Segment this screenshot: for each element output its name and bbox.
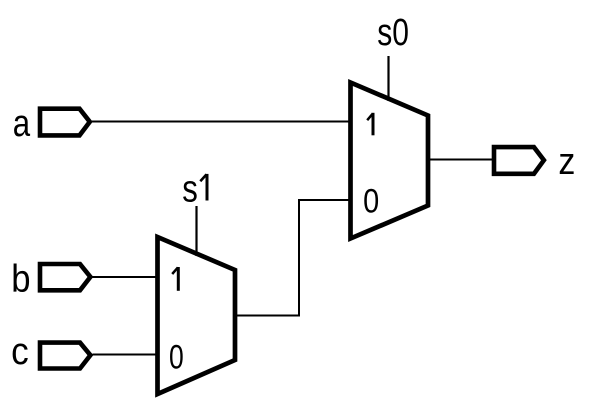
mux U2 pin label 1 — [367, 113, 373, 136]
svg-text:c: c — [11, 330, 29, 373]
wire a to mux U2 input 1 — [92, 121, 351, 123]
svg-text:0: 0 — [363, 181, 379, 220]
input port c — [40, 343, 90, 369]
svg-text:s0: s0 — [377, 12, 409, 54]
input port a — [40, 109, 90, 136]
mux U1 pin label 1 — [172, 267, 178, 291]
label s1 — [182, 168, 207, 210]
svg-text:z: z — [558, 139, 575, 182]
input port b — [40, 264, 90, 290]
svg-text:s: s — [182, 168, 198, 210]
wire U1 output to U2 input 0 — [235, 200, 351, 316]
wire b to mux U1 input 1 — [93, 276, 158, 278]
svg-text:b: b — [11, 257, 30, 300]
wire c to mux U1 input 0 — [93, 354, 158, 356]
output port z — [494, 147, 544, 174]
wire U2 output to port z — [428, 159, 495, 161]
wire s1 select — [195, 206, 197, 256]
svg-text:a: a — [13, 103, 31, 145]
mux U2 (select s0) body — [351, 83, 429, 239]
svg-text:0: 0 — [169, 338, 184, 376]
wire s0 select — [387, 56, 389, 101]
mux U1 (select s1) body — [158, 237, 236, 394]
